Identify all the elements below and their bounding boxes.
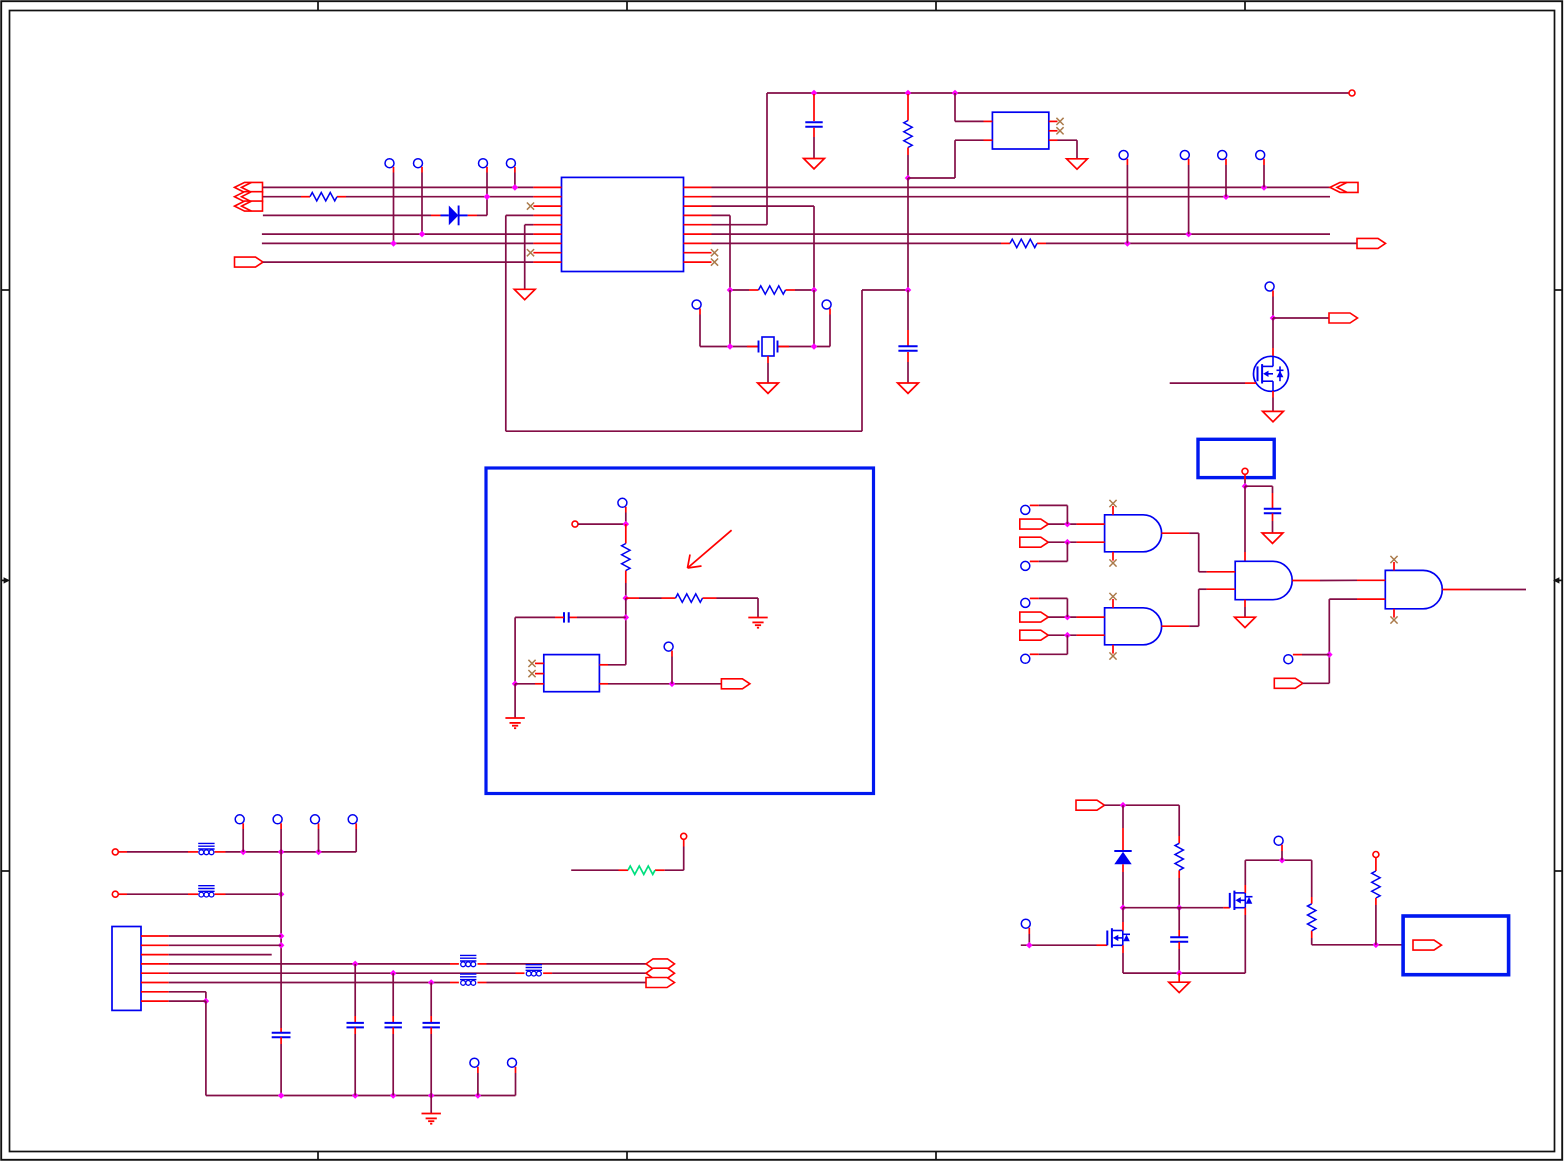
- resistor R10 bottom wire: [1375, 898, 1377, 945]
- G4 input1 stub: [1357, 579, 1385, 581]
- sheet border top zone ticks: [318, 1, 1245, 10]
- junction G2 in2: [1064, 632, 1071, 639]
- junction pullup node: [623, 521, 630, 528]
- resistor R10 top stub: [1375, 858, 1377, 872]
- sheet border right zone ticks: [1555, 290, 1564, 871]
- junction R10 node: [1373, 942, 1380, 949]
- zener branch bottom stub: [1122, 864, 1124, 907]
- test point TP26: [508, 1058, 517, 1073]
- crystal case ground stub: [767, 356, 769, 383]
- test point TP13: [1265, 282, 1274, 297]
- wire R7 to ground corner: [717, 598, 759, 617]
- G1 input1 stub: [1077, 523, 1105, 525]
- connector PWR_IN (offpage right): [1076, 800, 1105, 810]
- junction TP3: [484, 193, 491, 200]
- test point TP20: [1021, 919, 1030, 934]
- diode D2 (zener): [1114, 851, 1131, 864]
- wire node to U2 pin3: [515, 683, 535, 685]
- G3 bottom pin stub: [1244, 600, 1246, 618]
- wire R2 row: [730, 289, 814, 291]
- test point TP14: [1021, 505, 1039, 514]
- wire TP10 drop: [829, 315, 831, 347]
- junction zener node top: [1120, 802, 1127, 809]
- junction Q3 drain node: [1270, 315, 1277, 322]
- wire J1 pin8 and ground drop: [169, 1001, 206, 1095]
- capacitor C3 stub: [907, 290, 909, 346]
- wire G4 in2 column: [1329, 599, 1357, 683]
- AND gate G3: [1235, 561, 1292, 599]
- wire net B right (R1 to U1 pin2): [346, 196, 533, 198]
- test point TP10 (XTAL2): [822, 300, 831, 315]
- diode D1: [431, 206, 477, 226]
- wire U3 pin1 to VCC: [955, 93, 984, 121]
- G1 input2 stub: [1077, 541, 1105, 543]
- junction cap node: [623, 614, 630, 621]
- G4 output stub: [1442, 589, 1470, 591]
- junction ground rail e: [475, 1092, 482, 1099]
- ferrite bead L4 stubs: [516, 972, 553, 974]
- G2 unused bottom pin: [1112, 645, 1114, 654]
- wire earth drop: [430, 1096, 432, 1114]
- resistor R2 (crystal feedback): [749, 286, 795, 294]
- Q2 source stub down: [1244, 908, 1246, 973]
- wire R3 to P5: [665, 847, 684, 871]
- wire G3 out to G4 in1: [1320, 579, 1357, 581]
- wire TP2 drop: [421, 173, 423, 235]
- port circle P2: [1373, 852, 1379, 858]
- junction right bus E: [1124, 240, 1131, 247]
- test point TP11: [618, 498, 627, 512]
- junction R4/U3 node: [905, 175, 912, 182]
- port circle VCC rail right end: [1349, 90, 1355, 96]
- connector PROG4 (offpage right): [235, 257, 264, 267]
- wire TP26 drop: [515, 1073, 517, 1096]
- junction right bus A: [1261, 184, 1268, 191]
- junction pin7/8: [203, 998, 210, 1005]
- capacitor C8 bottom stub: [1178, 942, 1180, 973]
- no-connect X G1 top: [1109, 500, 1116, 507]
- junction TB1 node: [1242, 483, 1249, 490]
- port circle P3: [112, 849, 118, 855]
- AND gate G2: [1105, 608, 1162, 645]
- G3 output stub: [1292, 580, 1320, 582]
- test point TP2: [414, 159, 423, 173]
- wire U1 right pin5 to VCC rail: [712, 93, 768, 225]
- capacitor C6 right stub: [569, 616, 626, 618]
- transistor Q2 (N-MOSFET): [1230, 891, 1253, 910]
- junction rail1 b: [278, 849, 285, 856]
- connector IN2 (offpage right): [1020, 537, 1049, 547]
- G2 unused top pin: [1112, 599, 1114, 608]
- wire TP14 link: [1039, 505, 1068, 524]
- wire TP1 drop: [393, 173, 395, 244]
- wire IN2 to G1: [1048, 541, 1076, 543]
- wire IN4 to G2: [1048, 634, 1076, 636]
- wire J1 pin4 bus: [169, 963, 450, 965]
- wire J1 pin3 (stub end): [169, 954, 272, 956]
- wire U2 pin4 feedback: [608, 664, 626, 666]
- test point TP4: [506, 159, 515, 173]
- wire U1 right pin4 to crystal left: [712, 215, 731, 290]
- resistor R3 (green): [628, 866, 655, 874]
- junction VCC at C2: [811, 90, 818, 97]
- junction TP2: [419, 231, 426, 238]
- Q1 gate stub: [1097, 944, 1108, 946]
- wire net C (PROG3 to D1): [263, 214, 431, 216]
- port circle P5: [681, 833, 687, 839]
- wire U1 right pin2: [712, 196, 1331, 198]
- test point TP23: [311, 815, 320, 829]
- capacitor C3: [898, 346, 917, 351]
- wire P4 to L2: [118, 893, 188, 895]
- junction R2 right: [811, 287, 818, 294]
- Q3 source stub: [1272, 391, 1274, 411]
- no-connect X G1 bottom: [1109, 559, 1116, 566]
- wire P1 to node: [578, 523, 626, 525]
- wire TP8 drop: [1263, 165, 1265, 187]
- test point TP8: [1256, 151, 1265, 166]
- ferrite bead L3: [460, 955, 476, 966]
- capacitor C7 bottom stub: [1272, 513, 1274, 533]
- junction G1 in1: [1064, 521, 1071, 528]
- wire TP12 drop: [671, 657, 673, 684]
- wire TP21 drop: [242, 829, 244, 852]
- wire shield rail 1: [226, 851, 357, 853]
- capacitor C2 top stub: [813, 94, 815, 121]
- no-connect X U3 right pin1: [1056, 118, 1063, 125]
- wire IN1 to G1: [1048, 523, 1076, 525]
- wire TB1 node to C7: [1245, 485, 1273, 487]
- capacitor C10 bottom wire: [354, 1027, 356, 1095]
- U2 left pin stubs: [535, 663, 544, 683]
- junction rail1 c: [315, 849, 322, 856]
- wire R6 bottom: [625, 583, 627, 598]
- connector DATA1 (bidirectional): [646, 959, 675, 969]
- wire bottom ground rail: [206, 1095, 516, 1097]
- wire U1 right pin3 to crystal right: [712, 206, 815, 290]
- G1 unused top pin: [1112, 506, 1114, 515]
- wire Q3 drain to OUT4: [1273, 317, 1329, 319]
- transistor Q3 (N-MOSFET): [1254, 356, 1289, 391]
- junction crystal right: [811, 343, 818, 350]
- test point TP15: [1021, 561, 1039, 570]
- junction ground rail d: [428, 1092, 435, 1099]
- wire U2 output: [608, 683, 721, 685]
- wire TP19 drop: [1281, 851, 1283, 860]
- U3 left pin stubs: [984, 121, 993, 140]
- wire Q3 drain drop: [1272, 318, 1274, 357]
- ferrite bead L1 stubs: [188, 851, 226, 853]
- port circle on TB1: [1242, 468, 1248, 474]
- crystal Y1 stubs: [747, 346, 789, 348]
- wire G4 output: [1470, 589, 1526, 591]
- J1 pin stubs: [141, 936, 169, 1001]
- block TB2 (thick blue box): [1403, 916, 1509, 975]
- Q2 drain stub up: [1244, 860, 1246, 893]
- junction rail2: [278, 891, 285, 898]
- wire U3 pin3 to ground: [1058, 140, 1078, 159]
- capacitor C7: [1264, 509, 1281, 514]
- junction ground rail a: [278, 1092, 285, 1099]
- Q1 source stub down: [1122, 945, 1124, 973]
- capacitor C8: [1170, 937, 1188, 942]
- IC U1 (MCU): [562, 177, 684, 271]
- connector OUT2 (offpage right): [1357, 238, 1386, 248]
- junction pin5 cap: [390, 970, 397, 977]
- wire gate rail: [1123, 907, 1223, 909]
- junction VCC at U3: [952, 90, 959, 97]
- test point TP7: [1218, 151, 1227, 166]
- junction pin4 cap: [352, 961, 359, 968]
- test point TP3: [479, 159, 488, 173]
- junction G4 in2 node: [1326, 651, 1333, 658]
- capacitor C8 top stub: [1178, 908, 1180, 937]
- earth ground right of R7: [748, 618, 767, 628]
- test point TP6: [1180, 151, 1189, 166]
- no-connect X U1 right pin9: [711, 259, 718, 266]
- wire pin5 to DATA2: [552, 972, 646, 974]
- ferrite bead L3 stubs: [450, 963, 487, 965]
- resistor R10: [1372, 871, 1380, 898]
- test point TP18: [1284, 655, 1302, 664]
- G3 top pin stub: [1244, 552, 1246, 561]
- wire crystal row: [700, 346, 830, 348]
- wire R9 to TB2: [1312, 944, 1413, 946]
- wire TP9 drop: [699, 315, 701, 347]
- wire Q2 drain row: [1245, 859, 1311, 861]
- wire U1 pin5 to ground: [525, 225, 534, 290]
- resistor R9 bottom wire: [1311, 938, 1313, 945]
- junction power ground: [1176, 970, 1183, 977]
- resistor R3 stubs: [619, 869, 665, 871]
- wire U3 pin2 link: [955, 139, 984, 141]
- junction G2 in1: [1064, 614, 1071, 621]
- ferrite bead L5: [460, 974, 476, 985]
- G3 input1 stub: [1207, 571, 1236, 573]
- annotation red arrow: [688, 530, 732, 568]
- earth ground bottom rail: [422, 1114, 441, 1124]
- capacitor C11 top wire: [392, 973, 394, 1022]
- resistor R4: [904, 121, 912, 148]
- junction R2 left: [727, 287, 734, 294]
- no-connect X G4 bottom: [1390, 616, 1397, 623]
- connector DATA2 (bidirectional): [646, 968, 675, 978]
- G2 output stub: [1162, 625, 1190, 627]
- no-connect X G2 top: [1109, 593, 1116, 600]
- G1 output stub: [1162, 532, 1190, 534]
- P5 stub: [683, 839, 685, 846]
- no-connect X G2 bottom: [1109, 652, 1116, 659]
- capacitor C12 bottom wire: [430, 1027, 432, 1095]
- capacitor C10: [347, 1023, 364, 1028]
- wire TP18 link: [1302, 654, 1329, 656]
- resistor R9 top wire: [1311, 860, 1313, 897]
- capacitor C11 bottom wire: [392, 1027, 394, 1095]
- wire TP5 drop: [1126, 165, 1128, 243]
- connector IN4 (offpage right): [1020, 630, 1049, 640]
- G2 input1 stub: [1077, 616, 1105, 618]
- connector PROG1 (offpage left): [235, 182, 263, 192]
- wire pin6 to DATA3: [487, 982, 647, 984]
- no-connect X U1 left pin3: [527, 203, 534, 210]
- wire power ground rail: [1123, 972, 1245, 974]
- connector OUT3 (offpage right): [721, 679, 750, 689]
- wire TP16 link: [1039, 598, 1068, 617]
- test point TP21: [235, 815, 244, 829]
- ground below crystal: [758, 383, 779, 393]
- resistor R4 top stub: [907, 94, 909, 121]
- junction VCC at R4: [905, 90, 912, 97]
- wire net B left (PROG2 to R1): [263, 196, 301, 198]
- G4 input2 stub: [1357, 598, 1385, 600]
- wire J1 pin6 bus: [169, 982, 450, 984]
- wire TP24 drop: [355, 829, 357, 852]
- wire TP23 drop: [318, 829, 320, 852]
- capacitor C10 top wire: [354, 964, 356, 1022]
- Q1 drain stub up: [1122, 908, 1124, 931]
- capacitor C12: [423, 1023, 440, 1028]
- capacitor C6: [564, 612, 569, 622]
- ground below power section: [1169, 982, 1190, 992]
- connector PWR_OUT (inside TB2): [1413, 940, 1442, 950]
- wire TP3 drop: [486, 173, 488, 197]
- connector J1: [112, 927, 141, 1011]
- resistor R8 bottom wire: [1178, 878, 1180, 908]
- sheet border bottom zone ticks: [318, 1152, 936, 1160]
- wire VCC rail: [767, 92, 1349, 94]
- AND gate G4: [1385, 570, 1442, 608]
- wire J1 pin7: [169, 992, 206, 1001]
- wire net C (D1 to node B): [477, 197, 487, 216]
- capacitor C7 top stub: [1272, 486, 1274, 508]
- ground below C7: [1262, 533, 1283, 543]
- resistor R9: [1308, 897, 1316, 938]
- wire TB1 port stub: [1244, 474, 1246, 486]
- Q3 gate stub: [1245, 382, 1256, 384]
- resistor R6 (pull-up): [622, 524, 630, 583]
- wire U2 ground drop: [514, 684, 516, 718]
- wire IN5 link: [1303, 682, 1330, 684]
- capacitor C2 bottom stub: [813, 128, 815, 159]
- wire net D (to U1 pin6): [262, 233, 534, 235]
- wire TP6 drop: [1188, 165, 1190, 234]
- no-connect X U3 right pin2: [1056, 127, 1063, 134]
- power ground stub: [1178, 973, 1180, 982]
- wire pullup column: [625, 598, 627, 665]
- junction U2 input node: [512, 681, 519, 688]
- junction Q2 drain TP: [1279, 857, 1286, 864]
- wire J1 pin1: [169, 935, 281, 937]
- wire PWR_IN rail: [1105, 804, 1180, 806]
- Q2 gate stub: [1223, 907, 1229, 909]
- transistor Q1 (N-MOSFET): [1107, 928, 1130, 947]
- wire J1 pin5 bus: [169, 972, 516, 974]
- wire U1 pin4 loop: [506, 215, 908, 431]
- junction TP4: [512, 184, 519, 191]
- junction shield/pin1: [278, 933, 285, 940]
- ferrite bead L2 stubs: [188, 893, 226, 895]
- capacitor C9 top stub: [280, 1028, 282, 1032]
- G1 unused bottom pin: [1112, 552, 1114, 561]
- wire G1 out to G3 in1: [1189, 533, 1206, 572]
- ground symbol at U1 pin5: [514, 289, 535, 299]
- junction shield/pin2: [278, 942, 285, 949]
- G3 input2 stub: [1207, 588, 1236, 590]
- wire U1 right pin1 to IN connector: [712, 186, 1331, 188]
- resistor R8 top wire: [1178, 805, 1180, 836]
- U2 right pin stubs: [599, 665, 608, 684]
- capacitor C12 top wire: [430, 983, 432, 1023]
- sheet border left zone ticks: [1, 290, 9, 871]
- test point TP19: [1274, 836, 1283, 851]
- junction crystal left: [727, 343, 734, 350]
- wire pin4 to DATA1: [487, 963, 647, 965]
- sheet border left mid arrow: [1, 577, 10, 583]
- no-connect X U1 right pin8: [711, 249, 718, 256]
- AND gate G1: [1105, 515, 1162, 552]
- capacitor C11: [385, 1023, 402, 1028]
- connector OUT4 (offpage right): [1329, 313, 1358, 323]
- capacitor C9 bottom stub: [280, 1037, 282, 1095]
- capacitor C6 left wire: [515, 616, 564, 618]
- junction R6 bottom: [623, 595, 630, 602]
- IC U2 (detector): [544, 655, 600, 692]
- resistor R5: [1001, 239, 1046, 247]
- ferrite bead L4: [526, 965, 542, 976]
- connector IN3 (offpage right): [1020, 612, 1049, 622]
- connector IN1 (offpage right): [1020, 519, 1049, 529]
- wire TP20 drop: [1028, 934, 1030, 945]
- junction G1 in2: [1064, 539, 1071, 546]
- wire J1 pin2: [169, 944, 281, 946]
- port circle P4: [112, 891, 118, 897]
- ground below C2: [804, 159, 825, 169]
- wire TB1 node to G3 top: [1244, 486, 1246, 552]
- wire U1 right pin6: [712, 233, 1331, 235]
- test point TP24: [348, 815, 357, 829]
- wire net A (PROG1 to U1 pin1): [263, 186, 534, 188]
- wire TP25 drop: [477, 1073, 479, 1096]
- junction crystal column top: [905, 287, 912, 294]
- connector OUT1 (offpage left, right edge): [1330, 182, 1358, 192]
- test point TP17: [1021, 654, 1039, 663]
- junction ground rail c: [390, 1092, 397, 1099]
- junction TP1: [390, 240, 397, 247]
- no-connect X U2 pin2: [528, 670, 535, 677]
- detail frame box (thick blue outline): [486, 468, 874, 794]
- wire shield column: [280, 852, 282, 1028]
- ferrite bead L2: [198, 886, 214, 897]
- capacitor C2: [805, 122, 822, 127]
- junction Q1 gate TP: [1026, 942, 1033, 949]
- wire IN3 to G2: [1048, 616, 1076, 618]
- junction gate rail mid: [1176, 904, 1183, 911]
- wire U1 right pin7 to R5: [712, 242, 1002, 244]
- wire TP22 drop: [280, 829, 282, 852]
- test point TP22: [273, 815, 282, 829]
- wire Q3 gate: [1170, 382, 1245, 384]
- resistor R7 left stub: [626, 597, 662, 599]
- resistor R4 bottom stub: [907, 148, 909, 179]
- junction right bus B: [1223, 193, 1230, 200]
- ground below Q3: [1263, 411, 1284, 421]
- capacitor C3 bottom stub: [907, 352, 909, 383]
- wire cap to U2 column: [514, 617, 516, 683]
- resistor R1: [301, 193, 346, 201]
- wire R3 left: [571, 869, 618, 871]
- junction pin6 cap: [428, 979, 435, 986]
- connector DATA3 (offpage right): [646, 978, 675, 988]
